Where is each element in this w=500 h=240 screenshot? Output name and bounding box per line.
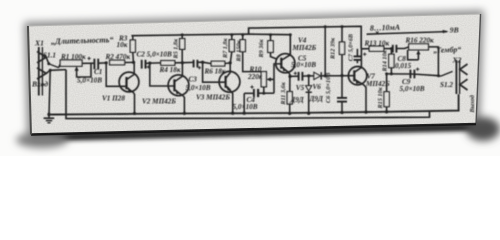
- wire X1 ground pin: [46, 70, 66, 74]
- node A: [105, 61, 108, 64]
- node riser top: [324, 25, 327, 28]
- plus mark C5: [294, 72, 297, 75]
- transistor V7: [348, 49, 366, 112]
- wire emitter to C5: [290, 75, 299, 77]
- ground: [44, 113, 55, 123]
- node R14 bottom: [390, 72, 393, 75]
- node C4 ground: [243, 112, 246, 115]
- capacitor C7: [354, 49, 362, 63]
- wire C8 to R16: [396, 47, 408, 49]
- resistor R3: [130, 36, 135, 63]
- wire current measurement arrow to 9V: [367, 30, 449, 35]
- wire R13 to C8: [384, 48, 393, 50]
- node V3 emitter: [231, 112, 234, 115]
- capacitor C5: [299, 72, 303, 81]
- wire ground rail: [49, 94, 459, 114]
- wire collector node to R13: [361, 48, 369, 50]
- potentiometer R10: [261, 72, 274, 94]
- node F: [229, 61, 232, 64]
- capacitor C2: [142, 60, 146, 69]
- diode V5: [306, 76, 312, 115]
- capacitor C8: [393, 45, 397, 53]
- node R12 bottom: [340, 74, 343, 77]
- junction: [49, 69, 52, 72]
- wire V4 base: [274, 64, 281, 93]
- node V7 emitter: [364, 110, 367, 113]
- node D: [181, 61, 184, 64]
- plus mark C1: [87, 57, 90, 60]
- resistor R6: [211, 61, 225, 66]
- node E: [201, 61, 204, 64]
- plus mark C4: [250, 85, 253, 88]
- wire lower common rail: [66, 70, 430, 119]
- node V4 emitter: [288, 75, 291, 78]
- resistor R5: [180, 33, 185, 62]
- resistor R13: [369, 46, 384, 51]
- capacitor C6: [337, 76, 347, 115]
- resistor R9: [268, 33, 277, 59]
- wire C2 to node C: [146, 62, 150, 64]
- capacitor C4: [244, 89, 274, 113]
- plus mark C9: [416, 68, 419, 71]
- node R14 top: [390, 47, 393, 50]
- transistor V4: [276, 54, 295, 77]
- node S1.2 contact: [437, 74, 440, 77]
- capacitor C1: [94, 59, 98, 70]
- resistor R7: [229, 33, 234, 63]
- wire R4 to node D: [175, 62, 183, 64]
- wire V2 base: [150, 63, 175, 86]
- node V1 emitter: [133, 112, 136, 115]
- resistor R2: [110, 60, 125, 65]
- wire node C to R4: [150, 62, 161, 64]
- resistor R11: [287, 76, 292, 115]
- potentiometer R1: [60, 60, 91, 77]
- node output row left: [385, 72, 388, 75]
- plus mark C7: [363, 53, 366, 56]
- wire R2 to node B: [125, 61, 134, 63]
- diode V6: [309, 72, 355, 79]
- wire C1 to node A: [98, 62, 106, 64]
- wire riser to top rail: [324, 27, 326, 76]
- wire top supply rail left: [131, 34, 290, 55]
- wire R6 to node F: [225, 62, 230, 65]
- wire R16 to S1.2: [428, 47, 438, 76]
- resistor R12: [339, 25, 344, 76]
- switch S1.1: [47, 62, 60, 67]
- wire output row: [387, 74, 441, 76]
- node V2 emitter: [183, 112, 186, 115]
- resistor R8: [240, 33, 261, 71]
- node R10 bottom: [262, 92, 265, 95]
- wire V3 base: [203, 62, 226, 82]
- wire R1 to C1: [82, 62, 94, 64]
- wire input pin to switch: [46, 57, 49, 64]
- switch S1.2: [441, 71, 453, 76]
- resistor R14: [389, 49, 394, 74]
- paper: [28, 14, 481, 135]
- wire to ground symbol: [49, 70, 50, 114]
- transistor V3: [219, 63, 240, 113]
- resistor R15: [384, 74, 389, 114]
- wire C5 to V5 node: [302, 75, 308, 77]
- transistor V2: [168, 63, 189, 114]
- resistor R4: [161, 61, 175, 66]
- capacitor C9: [410, 70, 414, 79]
- plus mark C3: [198, 66, 201, 69]
- wire C3 to node E: [197, 61, 202, 63]
- node C: [148, 62, 151, 65]
- wire node E to R6: [203, 62, 212, 63]
- connector X1: [37, 47, 46, 96]
- potentiometer R16: [408, 44, 429, 60]
- node diode row left: [324, 74, 327, 77]
- wire node D to C3: [182, 61, 193, 63]
- node V5: [307, 74, 310, 77]
- plus mark C2: [147, 65, 150, 68]
- wire V1 base: [106, 63, 126, 86]
- connector X2: [456, 60, 467, 94]
- transistor V1: [119, 62, 139, 113]
- capacitor C3: [194, 60, 198, 68]
- wire rail step up: [249, 26, 362, 49]
- node B: [132, 61, 135, 64]
